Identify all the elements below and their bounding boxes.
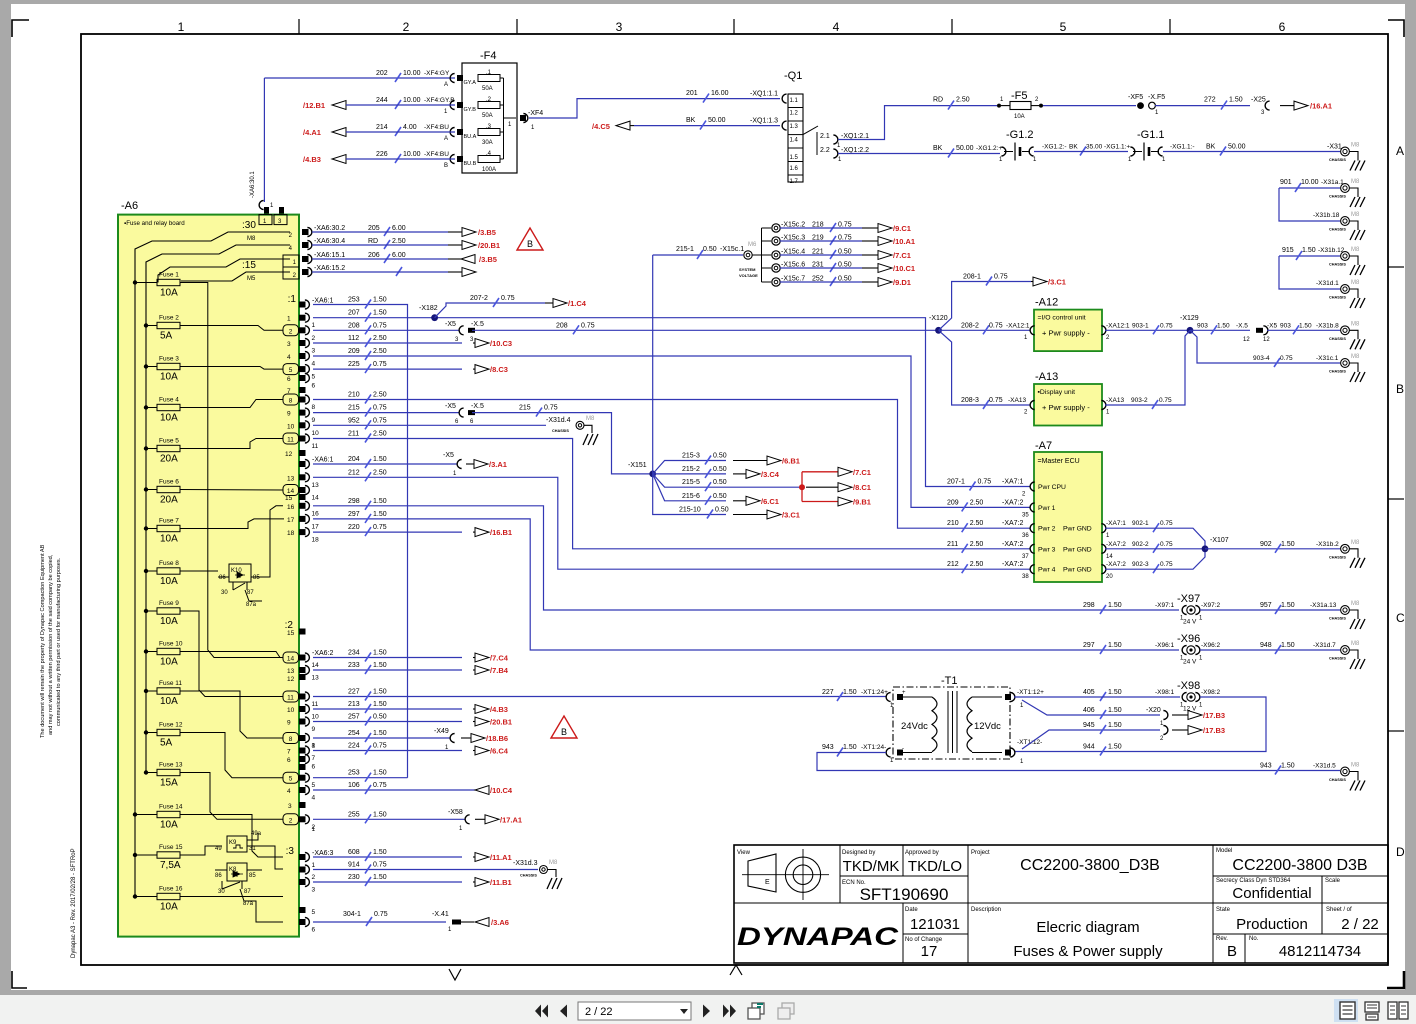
- svg-text:CHASSIS: CHASSIS: [1329, 778, 1346, 782]
- svg-text:/4.B3: /4.B3: [303, 155, 321, 164]
- svg-text:902-1: 902-1: [1132, 520, 1149, 527]
- svg-text:/20.B1: /20.B1: [478, 241, 500, 250]
- svg-text:RD: RD: [368, 238, 378, 245]
- svg-text:9: 9: [312, 726, 316, 733]
- svg-text:.1: .1: [486, 70, 492, 76]
- svg-text:10A: 10A: [160, 696, 178, 707]
- svg-text:-XQ1:1.3: -XQ1:1.3: [750, 118, 778, 125]
- svg-text:B: B: [561, 727, 567, 737]
- svg-text:209: 209: [348, 348, 360, 355]
- svg-text:1.50: 1.50: [373, 498, 387, 505]
- svg-text:/16.B1: /16.B1: [490, 528, 512, 537]
- svg-text:-XA7:1: -XA7:1: [1106, 520, 1126, 527]
- svg-text:-XA6:30.4: -XA6:30.4: [314, 238, 345, 245]
- svg-text:-X.5: -X.5: [471, 403, 484, 410]
- svg-text:-XG1.2:-: -XG1.2:-: [1042, 144, 1067, 151]
- svg-text:CHASSIS: CHASSIS: [1329, 195, 1346, 199]
- svg-text:903-2: 903-2: [1131, 397, 1148, 404]
- svg-text:14: 14: [287, 656, 295, 663]
- svg-text:-XA7:2: -XA7:2: [1106, 561, 1126, 568]
- svg-text:+ Pwr supply -: + Pwr supply -: [1042, 329, 1090, 338]
- svg-text:87a: 87a: [243, 901, 254, 907]
- svg-text:/3.A1: /3.A1: [489, 460, 507, 469]
- svg-text:209: 209: [947, 499, 959, 506]
- svg-text:17: 17: [312, 523, 320, 530]
- svg-text:5: 5: [312, 909, 316, 916]
- svg-text:-XF4:BU: -XF4:BU: [424, 151, 449, 158]
- svg-text:902-2: 902-2: [1132, 541, 1149, 548]
- svg-text:1.50: 1.50: [373, 770, 387, 777]
- svg-text:CHASSIS: CHASSIS: [1329, 296, 1346, 300]
- svg-text:16: 16: [312, 510, 320, 517]
- svg-text:0.75: 0.75: [989, 397, 1003, 404]
- svg-text:10A: 10A: [160, 413, 178, 424]
- svg-text:112: 112: [348, 335, 359, 342]
- svg-text:1: 1: [312, 862, 316, 869]
- svg-text:/3.C4: /3.C4: [761, 470, 780, 479]
- svg-text:915: 915: [1282, 247, 1294, 254]
- svg-text:-X97:1: -X97:1: [1155, 602, 1175, 609]
- svg-text:SFT190690: SFT190690: [860, 885, 949, 904]
- svg-text:13: 13: [287, 668, 295, 675]
- svg-text:215-2: 215-2: [682, 466, 700, 473]
- svg-text:215: 215: [519, 405, 531, 412]
- svg-text:CHASSIS: CHASSIS: [1329, 370, 1346, 374]
- svg-text:1.3: 1.3: [790, 124, 799, 130]
- svg-text:215: 215: [348, 405, 360, 412]
- svg-text:914: 914: [348, 862, 360, 869]
- svg-text:902-3: 902-3: [1132, 561, 1149, 568]
- svg-text:E: E: [765, 879, 770, 886]
- svg-text:-X31b.12: -X31b.12: [1318, 247, 1345, 254]
- svg-text:10A: 10A: [1014, 114, 1025, 120]
- svg-text::1: :1: [288, 294, 297, 305]
- svg-text:948: 948: [1260, 642, 1272, 649]
- svg-text:-XT1:24-: -XT1:24-: [861, 744, 886, 751]
- svg-text:-XG1.1:-: -XG1.1:-: [1170, 144, 1195, 151]
- svg-text:211: 211: [348, 431, 359, 438]
- svg-text:0.75: 0.75: [1160, 520, 1173, 527]
- svg-text:5: 5: [289, 367, 293, 374]
- svg-text:-X58: -X58: [448, 809, 463, 816]
- svg-text:304-1: 304-1: [343, 911, 361, 918]
- svg-text:211: 211: [947, 541, 958, 548]
- svg-text:17: 17: [921, 943, 938, 960]
- svg-text:1.50: 1.50: [1108, 722, 1122, 729]
- svg-text:/3.B5: /3.B5: [479, 255, 497, 264]
- svg-text:-XG1.2:+: -XG1.2:+: [976, 145, 1002, 152]
- svg-text:M8: M8: [1351, 280, 1360, 286]
- svg-text:Fuse 10: Fuse 10: [159, 641, 183, 648]
- svg-text:-X.41: -X.41: [432, 911, 449, 918]
- svg-text:0.75: 0.75: [374, 911, 388, 918]
- svg-text:-XF4:GY: -XF4:GY: [424, 70, 450, 77]
- svg-text:/9.D1: /9.D1: [893, 278, 911, 287]
- svg-text:1.6: 1.6: [790, 166, 799, 172]
- svg-text:903: 903: [1197, 322, 1208, 329]
- svg-text:/17.B3: /17.B3: [1203, 711, 1225, 720]
- svg-text:5: 5: [312, 374, 316, 381]
- svg-text:233: 233: [348, 662, 360, 669]
- svg-text:0.75: 0.75: [501, 295, 515, 302]
- svg-text:0.75: 0.75: [373, 361, 387, 368]
- svg-text:M8: M8: [247, 236, 256, 242]
- svg-text:-G1.1: -G1.1: [1137, 129, 1165, 141]
- svg-text:213: 213: [348, 701, 360, 708]
- svg-text:/12.B1: /12.B1: [303, 101, 325, 110]
- svg-text:-X151: -X151: [628, 462, 647, 469]
- svg-text:1.50: 1.50: [1299, 322, 1312, 329]
- svg-text:Pwr 4: Pwr 4: [1038, 567, 1056, 574]
- svg-text:14: 14: [1106, 554, 1113, 560]
- svg-text:BK: BK: [1206, 144, 1216, 151]
- svg-text:957: 957: [1260, 602, 1272, 609]
- svg-text:608: 608: [348, 849, 360, 856]
- svg-text:View: View: [737, 850, 751, 856]
- svg-text:10.00: 10.00: [403, 70, 421, 77]
- svg-text:/4.C5: /4.C5: [592, 122, 610, 131]
- svg-text:Project: Project: [971, 850, 990, 856]
- svg-text:-X31: -X31: [1327, 144, 1342, 151]
- svg-text:1.50: 1.50: [373, 297, 387, 304]
- svg-text:Fuse 14: Fuse 14: [159, 804, 183, 811]
- svg-text:.3: .3: [486, 124, 492, 130]
- svg-text:0.50: 0.50: [703, 246, 717, 253]
- svg-text:/6.B1: /6.B1: [782, 457, 800, 466]
- svg-text:-XA6:30.1: -XA6:30.1: [250, 171, 256, 198]
- svg-text:12: 12: [1263, 337, 1270, 343]
- svg-text:M8: M8: [1351, 143, 1360, 149]
- svg-text:17: 17: [287, 517, 295, 524]
- svg-text:-F4: -F4: [480, 50, 497, 62]
- svg-text:Elecric diagram: Elecric diagram: [1036, 919, 1139, 936]
- svg-text:Fuse 16: Fuse 16: [159, 886, 183, 893]
- svg-text:5A: 5A: [160, 331, 173, 342]
- svg-text:=Master ECU: =Master ECU: [1038, 458, 1080, 465]
- svg-text:-XA12:1: -XA12:1: [1006, 322, 1030, 329]
- svg-text:220: 220: [348, 524, 360, 531]
- svg-text:/11.A1: /11.A1: [490, 853, 512, 862]
- svg-text:RD: RD: [933, 97, 943, 104]
- svg-text:Approved by: Approved by: [905, 850, 939, 856]
- svg-text:/9.C1: /9.C1: [893, 224, 911, 233]
- svg-text:-A13: -A13: [1035, 371, 1058, 383]
- svg-text:Dynapac A3 - Rev. 2017/02/28 -: Dynapac A3 - Rev. 2017/02/28 - SFTRoP: [71, 848, 77, 958]
- svg-text:3: 3: [288, 803, 292, 810]
- svg-text:1.50: 1.50: [1229, 97, 1243, 104]
- svg-text:11: 11: [312, 701, 319, 708]
- svg-text:87: 87: [247, 590, 254, 596]
- svg-text:-XA13: -XA13: [1008, 397, 1026, 404]
- svg-text:35.00: 35.00: [1086, 144, 1103, 151]
- svg-text:-XA7:2: -XA7:2: [1002, 520, 1024, 527]
- svg-text:2.50: 2.50: [373, 335, 387, 342]
- svg-text:121031: 121031: [910, 916, 960, 933]
- svg-text:2: 2: [289, 328, 293, 335]
- svg-text:297: 297: [348, 511, 360, 518]
- svg-text:M5: M5: [247, 276, 256, 282]
- svg-text:1: 1: [178, 20, 185, 34]
- svg-text:298: 298: [348, 498, 360, 505]
- svg-text:0.75: 0.75: [373, 405, 387, 412]
- svg-text:35: 35: [1022, 512, 1029, 518]
- svg-text:M8: M8: [549, 860, 558, 866]
- svg-text:CC2200-3800_D3B: CC2200-3800_D3B: [1020, 857, 1160, 874]
- svg-text:5: 5: [1060, 20, 1067, 34]
- svg-text:224: 224: [348, 743, 360, 750]
- svg-text:2.2: 2.2: [820, 147, 830, 154]
- svg-text:CHASSIS: CHASSIS: [1329, 263, 1346, 267]
- svg-text:943: 943: [1260, 763, 1272, 770]
- svg-text:-X15c.1: -X15c.1: [720, 246, 744, 253]
- svg-text:0.50: 0.50: [715, 507, 729, 514]
- svg-text:0.75: 0.75: [544, 405, 558, 412]
- svg-text:86: 86: [219, 575, 226, 581]
- svg-text:210: 210: [947, 520, 959, 527]
- svg-text:State: State: [1216, 907, 1231, 913]
- svg-text:3: 3: [312, 348, 316, 355]
- svg-text:903: 903: [1280, 322, 1291, 329]
- svg-text:0.75: 0.75: [994, 274, 1008, 281]
- svg-text:1.50: 1.50: [1108, 689, 1122, 696]
- svg-text:0.75: 0.75: [1159, 397, 1172, 404]
- svg-text::30: :30: [242, 220, 256, 231]
- svg-text:11: 11: [312, 443, 319, 450]
- svg-text:13: 13: [287, 475, 295, 482]
- svg-text:M8: M8: [1351, 641, 1360, 647]
- svg-text:1.50: 1.50: [373, 689, 387, 696]
- svg-text:10: 10: [287, 707, 295, 714]
- svg-text:Pwr GND: Pwr GND: [1063, 526, 1092, 533]
- svg-text:/10.C1: /10.C1: [893, 264, 915, 273]
- svg-text:B: B: [527, 239, 533, 249]
- svg-text:-X25: -X25: [1251, 97, 1266, 104]
- svg-text:Fuse 3: Fuse 3: [159, 356, 179, 363]
- svg-text:945: 945: [1083, 722, 1095, 729]
- svg-text:-XA12:1: -XA12:1: [1106, 322, 1130, 329]
- svg-text:12: 12: [287, 676, 295, 683]
- svg-text:CHASSIS: CHASSIS: [1329, 228, 1346, 232]
- svg-text:GY.B: GY.B: [464, 107, 477, 113]
- svg-text:1.50: 1.50: [373, 456, 387, 463]
- svg-text:-X.5: -X.5: [471, 321, 484, 328]
- svg-text:BU.A: BU.A: [464, 134, 477, 140]
- svg-text:944: 944: [1083, 744, 1095, 751]
- svg-text:1.50: 1.50: [373, 310, 387, 317]
- svg-text:1.50: 1.50: [373, 849, 387, 856]
- svg-text:13: 13: [312, 675, 320, 682]
- svg-text:85: 85: [253, 575, 260, 581]
- svg-text:4: 4: [287, 788, 291, 795]
- svg-text:-XA6:1: -XA6:1: [312, 457, 334, 464]
- svg-text:Date: Date: [905, 907, 918, 913]
- svg-text:Fuse 9: Fuse 9: [159, 600, 179, 607]
- svg-text:M8: M8: [1351, 601, 1360, 607]
- svg-text:24 V: 24 V: [1183, 659, 1197, 666]
- svg-text:Model: Model: [1216, 848, 1232, 854]
- svg-text:-XF4:BU: -XF4:BU: [424, 124, 449, 131]
- svg-text:4: 4: [312, 795, 316, 802]
- svg-text:10A: 10A: [160, 657, 178, 668]
- svg-text:/11.B1: /11.B1: [490, 878, 512, 887]
- svg-text:M6: M6: [748, 242, 757, 248]
- svg-text:/9.B1: /9.B1: [853, 498, 871, 507]
- svg-text:13: 13: [312, 482, 320, 489]
- svg-text::15: :15: [242, 260, 256, 271]
- svg-text:BK: BK: [1069, 144, 1078, 151]
- svg-text:212: 212: [947, 561, 959, 568]
- svg-text:2.50: 2.50: [373, 469, 387, 476]
- svg-text:30: 30: [221, 590, 228, 596]
- svg-text:902: 902: [1260, 541, 1272, 548]
- svg-text:-X31d.4: -X31d.4: [546, 417, 571, 424]
- svg-text:-XA6:15.1: -XA6:15.1: [314, 252, 345, 259]
- svg-text:▪Display unit: ▪Display unit: [1038, 389, 1076, 396]
- svg-text:-X97: -X97: [1177, 593, 1200, 605]
- svg-text:10A: 10A: [160, 902, 178, 913]
- svg-text:10.00: 10.00: [403, 151, 421, 158]
- svg-text:227: 227: [822, 689, 834, 696]
- svg-text:=I/O control unit: =I/O control unit: [1038, 315, 1086, 322]
- svg-text:1.50: 1.50: [1108, 744, 1122, 751]
- svg-text:30: 30: [218, 889, 225, 895]
- svg-text:Rev.: Rev.: [1216, 936, 1228, 942]
- svg-text:Sheet / of: Sheet / of: [1326, 907, 1352, 913]
- svg-text:204: 204: [348, 456, 360, 463]
- svg-text:234: 234: [348, 650, 360, 657]
- svg-text:297: 297: [1083, 642, 1095, 649]
- svg-text:1: 1: [287, 316, 291, 323]
- svg-text:0.50: 0.50: [713, 479, 727, 486]
- svg-text:Pwr GND: Pwr GND: [1063, 567, 1092, 574]
- svg-text:Scale: Scale: [1325, 878, 1341, 884]
- svg-text:257: 257: [348, 714, 360, 721]
- svg-text:6: 6: [312, 764, 316, 771]
- svg-text:244: 244: [376, 97, 388, 104]
- svg-text:6: 6: [287, 376, 291, 383]
- svg-text:-XA6:1: -XA6:1: [312, 298, 334, 305]
- svg-text:0.75: 0.75: [1160, 541, 1173, 548]
- svg-text:903-4: 903-4: [1253, 355, 1270, 362]
- svg-text:49a: 49a: [251, 831, 262, 837]
- svg-text:36: 36: [1022, 533, 1029, 539]
- svg-text:16.00: 16.00: [711, 90, 729, 97]
- svg-text:-X31d.5: -X31d.5: [1313, 763, 1336, 770]
- svg-text:-XF4: -XF4: [528, 110, 543, 117]
- svg-text:Fuse 8: Fuse 8: [159, 560, 179, 567]
- svg-text:106: 106: [348, 782, 360, 789]
- svg-text:5: 5: [312, 782, 316, 789]
- svg-text:-XA7:2: -XA7:2: [1106, 541, 1126, 548]
- svg-text:CHASSIS: CHASSIS: [1329, 555, 1346, 559]
- svg-text:M8: M8: [1351, 179, 1360, 185]
- svg-text:2.50: 2.50: [392, 238, 406, 245]
- svg-text:1.2: 1.2: [790, 111, 799, 117]
- svg-text:8: 8: [312, 404, 316, 411]
- svg-text:6: 6: [312, 927, 316, 934]
- svg-text:/17.A1: /17.A1: [500, 815, 522, 824]
- svg-text:/7.C1: /7.C1: [893, 251, 911, 260]
- svg-text:M8: M8: [1351, 354, 1360, 360]
- svg-text:205: 205: [368, 225, 380, 232]
- svg-text:254: 254: [348, 730, 360, 737]
- svg-text:TKD/LO: TKD/LO: [908, 858, 962, 875]
- svg-text:-A7: -A7: [1035, 440, 1052, 452]
- svg-text:1.50: 1.50: [373, 730, 387, 737]
- svg-text:No.: No.: [1249, 936, 1259, 942]
- svg-text:/17.B3: /17.B3: [1203, 726, 1225, 735]
- svg-text:CHASSIS: CHASSIS: [520, 874, 537, 878]
- svg-text:-XT1:12+: -XT1:12+: [1017, 689, 1044, 696]
- svg-text:1.50: 1.50: [373, 874, 387, 881]
- svg-text:10.00: 10.00: [403, 97, 421, 104]
- svg-text:/6.C4: /6.C4: [490, 747, 509, 756]
- svg-text:Designed by: Designed by: [842, 850, 875, 856]
- svg-text:215-6: 215-6: [682, 493, 700, 500]
- svg-text:BK: BK: [933, 145, 943, 152]
- svg-text:1.50: 1.50: [1281, 642, 1295, 649]
- svg-text:3: 3: [616, 20, 623, 34]
- svg-text:2.50: 2.50: [373, 348, 387, 355]
- svg-text:230: 230: [348, 874, 360, 881]
- svg-text:0.50: 0.50: [713, 453, 727, 460]
- svg-text:/18.B6: /18.B6: [486, 734, 508, 743]
- svg-text:2.50: 2.50: [970, 561, 984, 568]
- svg-text:-X31a.13: -X31a.13: [1310, 602, 1337, 609]
- svg-text:-Q1: -Q1: [784, 70, 802, 82]
- svg-text:-XA6:2: -XA6:2: [312, 650, 334, 657]
- svg-text:9: 9: [287, 411, 291, 418]
- svg-text:3: 3: [287, 341, 291, 348]
- svg-text:CC2200-3800 D3B: CC2200-3800 D3B: [1232, 857, 1367, 874]
- svg-text:-XA6:3: -XA6:3: [312, 850, 334, 857]
- svg-text:1.4: 1.4: [790, 138, 799, 144]
- svg-text:3: 3: [312, 887, 316, 894]
- svg-text:Fuse 1: Fuse 1: [159, 272, 179, 279]
- svg-text:208-3: 208-3: [961, 397, 979, 404]
- svg-text:207: 207: [348, 310, 360, 317]
- svg-text:0.75: 0.75: [989, 322, 1003, 329]
- svg-text:406: 406: [1083, 707, 1095, 714]
- svg-text:1.50: 1.50: [373, 701, 387, 708]
- svg-text:208-1: 208-1: [963, 274, 981, 281]
- svg-text:-XT1:12-: -XT1:12-: [1017, 739, 1042, 746]
- svg-text:405: 405: [1083, 689, 1095, 696]
- svg-text:-X129: -X129: [1180, 315, 1199, 322]
- svg-text:2 / 22: 2 / 22: [1341, 916, 1379, 933]
- svg-text:206: 206: [368, 252, 380, 259]
- svg-text:12: 12: [1243, 337, 1250, 343]
- svg-text:1.50: 1.50: [373, 650, 387, 657]
- svg-text:37: 37: [1022, 554, 1029, 560]
- svg-text:2: 2: [312, 874, 316, 881]
- svg-text:4.00: 4.00: [403, 124, 417, 131]
- svg-text:A: A: [444, 136, 448, 142]
- svg-text:10A: 10A: [160, 288, 178, 299]
- svg-text:2 / 22: 2 / 22: [585, 1006, 613, 1018]
- svg-text:M8: M8: [1351, 212, 1360, 218]
- svg-text:A: A: [444, 82, 448, 88]
- svg-text:10A: 10A: [160, 372, 178, 383]
- svg-text:-XT1:24+: -XT1:24+: [861, 689, 888, 696]
- svg-text:12: 12: [285, 451, 293, 458]
- svg-text:1: 1: [312, 826, 316, 833]
- svg-text:-X31a.1: -X31a.1: [1321, 179, 1344, 186]
- svg-text:215-5: 215-5: [682, 479, 700, 486]
- svg-text:Confidential: Confidential: [1232, 885, 1311, 902]
- svg-text:0.75: 0.75: [373, 417, 387, 424]
- svg-text:0.75: 0.75: [373, 782, 387, 789]
